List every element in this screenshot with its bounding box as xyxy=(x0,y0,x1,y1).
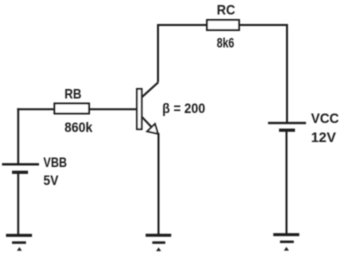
transistor Q1 xyxy=(137,89,206,134)
ground left xyxy=(6,235,32,250)
wire top node: collector to VCC xyxy=(157,24,288,26)
wire VBB battery to left ground xyxy=(17,172,19,235)
ground left bar 1 xyxy=(6,234,32,237)
battery VCC positive plate xyxy=(268,122,306,124)
battery VBB negative plate xyxy=(12,171,28,174)
svg-text:RB: RB xyxy=(65,86,82,102)
battery VCC negative plate xyxy=(279,129,295,132)
ground middle xyxy=(146,235,172,251)
resistor RC xyxy=(207,2,239,51)
battery VBB xyxy=(2,154,67,188)
battery VCC xyxy=(268,110,339,145)
ground right bar 2 xyxy=(280,241,294,244)
svg-text:β = 200: β = 200 xyxy=(162,100,205,116)
transistor Q1 emitter arrow xyxy=(147,124,158,134)
battery VBB positive plate xyxy=(2,163,39,165)
transistor Q1 emitter line xyxy=(142,117,158,134)
ground right bar 1 xyxy=(273,233,299,236)
svg-text:VCC: VCC xyxy=(311,110,339,126)
resistor RB xyxy=(55,86,93,135)
ground right xyxy=(273,235,299,251)
wire right vertical to VCC battery xyxy=(286,24,288,123)
ground middle bar 1 xyxy=(146,234,172,237)
transistor Q1 base bar xyxy=(137,89,142,129)
ground middle triangle xyxy=(156,247,161,251)
wire VCC battery to right ground xyxy=(286,131,288,235)
svg-text:860k: 860k xyxy=(65,119,93,135)
svg-text:RC: RC xyxy=(217,2,236,18)
svg-text:12V: 12V xyxy=(311,129,337,145)
wire left vertical to VBB battery xyxy=(17,108,19,163)
svg-text:8k6: 8k6 xyxy=(217,35,235,51)
wire base horizontal xyxy=(17,108,136,110)
svg-text:5V: 5V xyxy=(43,172,59,188)
ground left triangle xyxy=(17,247,22,251)
wire emitter vertical to middle ground xyxy=(158,133,160,235)
svg-text:VBB: VBB xyxy=(43,154,67,170)
wire collector diagonal xyxy=(142,82,158,97)
ground left bar 2 xyxy=(12,241,26,244)
ground right triangle xyxy=(284,247,289,251)
ground middle bar 2 xyxy=(152,241,165,244)
wire collector vertical xyxy=(157,24,159,82)
